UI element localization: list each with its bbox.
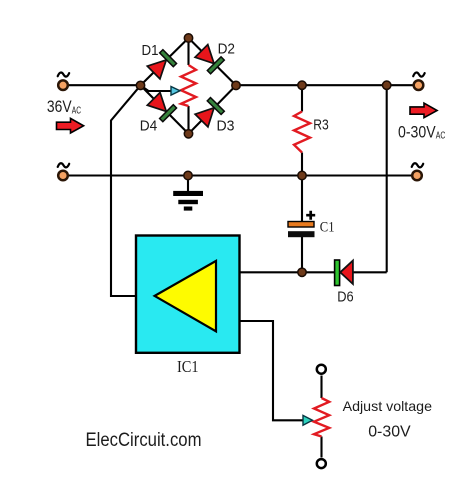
- AC terminal bottom-left: [58, 171, 68, 181]
- svg-text:R3: R3: [313, 118, 329, 134]
- svg-text:Adjust voltage: Adjust voltage: [343, 398, 433, 414]
- junction node R3 top: [298, 81, 306, 89]
- svg-text:0-30V: 0-30V: [368, 424, 411, 441]
- junction node T (bridge top): [184, 34, 192, 42]
- AC terminal bottom-right: [412, 171, 422, 181]
- diode D6 bar: [335, 260, 340, 286]
- AC terminal top-left: [58, 80, 68, 90]
- junction node L (bridge left): [136, 81, 144, 89]
- ground bar 1: [173, 191, 203, 196]
- svg-text:AC: AC: [72, 106, 81, 117]
- wire: bridge edge L-T: [141, 38, 189, 85]
- diode D3: [195, 98, 225, 128]
- junction node R3 bottom: [298, 171, 306, 179]
- wire: bridge edge T-R: [189, 38, 237, 85]
- ground bar 2: [178, 200, 198, 204]
- wire: top-left AC line: [69, 84, 141, 86]
- potentiometer stems: [320, 376, 322, 458]
- svg-text:ElecCircuit.com: ElecCircuit.com: [86, 429, 202, 451]
- wire: C1 node to D6 anode: [302, 271, 335, 273]
- resistor VR (bridge center zigzag): [181, 65, 196, 106]
- junction node R (bridge right): [232, 81, 240, 89]
- svg-text:D1: D1: [142, 43, 159, 59]
- junction node output branch: [383, 81, 391, 89]
- svg-text:D4: D4: [140, 119, 158, 135]
- diode D1: [147, 50, 177, 80]
- wire: wiper feed from left node: [141, 85, 171, 91]
- wire: bottom AC line: [69, 174, 412, 176]
- svg-text:AC: AC: [436, 131, 446, 142]
- tilde top-left: [58, 73, 69, 77]
- junction node ground: [184, 171, 192, 179]
- capacitor C1 bottom plate: [288, 231, 315, 237]
- capacitor C1 plus sign: [306, 211, 315, 220]
- potentiometer zigzag: [314, 398, 329, 437]
- wire: right vertical (output to D6): [386, 85, 388, 272]
- wire: D6 cathode to right vertical: [353, 271, 387, 273]
- wire: bridge edge B-R: [189, 85, 237, 133]
- junction node B (bridge bottom): [184, 130, 192, 138]
- svg-text:D6: D6: [337, 289, 353, 305]
- wire: ground stem: [187, 176, 189, 192]
- wire: C1 stems: [301, 176, 303, 273]
- output arrow: [410, 103, 437, 118]
- svg-text:C1: C1: [320, 220, 335, 236]
- diode D6 triangle: [340, 261, 353, 284]
- wiper arrow (potentiometer): [303, 415, 313, 425]
- wire: diagonal from left node to IC1 input: [111, 85, 141, 296]
- ground bar 3: [184, 207, 193, 211]
- potentiometer bottom terminal: [317, 459, 326, 468]
- wire: bridge center stems: [187, 38, 189, 134]
- potentiometer top terminal: [317, 365, 326, 374]
- wire: bridge edge L-B: [141, 85, 189, 133]
- svg-text:36V: 36V: [47, 98, 72, 116]
- input arrow: [57, 118, 84, 133]
- capacitor C1 top plate: [288, 222, 314, 228]
- svg-text:0-30V: 0-30V: [398, 124, 436, 142]
- tilde bottom-left: [58, 163, 69, 167]
- svg-text:D3: D3: [217, 118, 235, 134]
- diode D2: [195, 44, 225, 74]
- svg-text:D2: D2: [218, 42, 235, 58]
- svg-text:IC1: IC1: [177, 357, 199, 376]
- wire: IC1 lower output to potentiometer wiper: [240, 321, 304, 420]
- tilde bottom-right: [412, 163, 424, 167]
- resistor R3: [294, 112, 310, 153]
- wire: top-right AC line: [236, 84, 413, 86]
- op-amp IC1 box: [136, 236, 240, 353]
- op-amp IC1 triangle: [155, 261, 216, 331]
- wire: R3 stems: [301, 85, 303, 175]
- wiper arrow (bridge): [171, 87, 180, 96]
- wire: IC1 output to C1 node: [240, 271, 302, 273]
- junction node C1-D6: [298, 268, 306, 276]
- AC terminal top-right: [414, 80, 424, 90]
- tilde top-right: [413, 73, 425, 77]
- diode D4: [147, 92, 177, 122]
